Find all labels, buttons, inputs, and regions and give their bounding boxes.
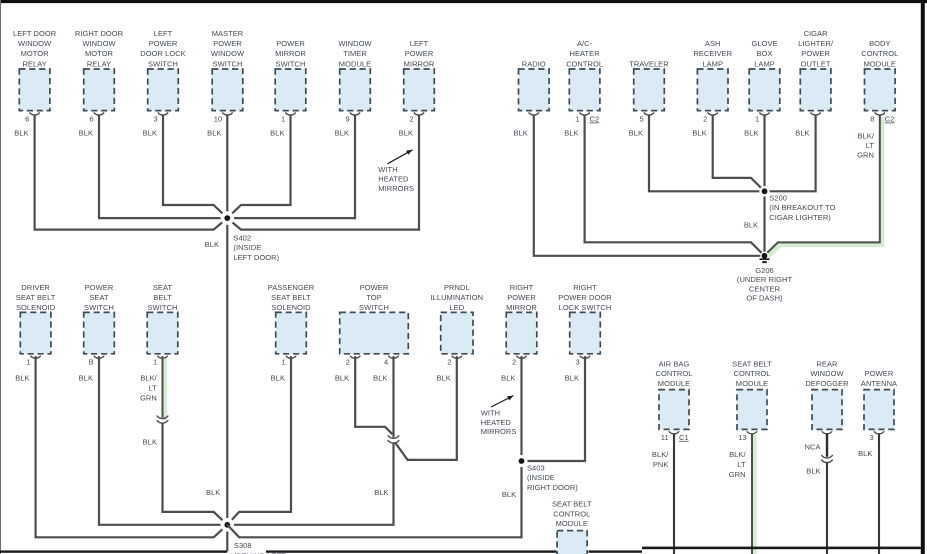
svg-text:MODULE: MODULE bbox=[658, 379, 690, 388]
svg-text:SEAT BELT: SEAT BELT bbox=[271, 293, 311, 302]
svg-text:BLK: BLK bbox=[15, 374, 29, 383]
power seat switch box bbox=[84, 312, 115, 353]
svg-text:SWITCH: SWITCH bbox=[213, 59, 243, 68]
svg-text:8: 8 bbox=[870, 115, 874, 124]
connector pin of cigar lighter/power outlet bbox=[811, 113, 821, 115]
wire window timer module to S402 bbox=[227, 115, 355, 218]
wire driver seat belt solenoid to S308 bbox=[36, 356, 228, 537]
svg-text:C2: C2 bbox=[885, 115, 895, 124]
svg-text:LAMP: LAMP bbox=[754, 59, 775, 68]
svg-text:2: 2 bbox=[409, 115, 413, 124]
svg-text:RIGHT DOOR): RIGHT DOOR) bbox=[527, 483, 578, 492]
svg-text:WINDOW: WINDOW bbox=[82, 39, 116, 48]
svg-text:LT: LT bbox=[737, 460, 746, 469]
splice S403 bbox=[516, 455, 528, 467]
svg-text:BLK: BLK bbox=[744, 220, 758, 229]
svg-text:4: 4 bbox=[384, 358, 388, 367]
svg-text:3: 3 bbox=[869, 433, 873, 442]
wire ash receiver lamp to S200 bbox=[713, 115, 765, 192]
svg-text:SWITCH: SWITCH bbox=[276, 59, 306, 68]
svg-text:POWER: POWER bbox=[276, 39, 305, 48]
svg-text:POWER: POWER bbox=[801, 49, 830, 58]
A/C-heater control box bbox=[569, 69, 600, 111]
connector pin of body control module bbox=[875, 113, 885, 115]
wire rear window defogger wire lower bbox=[826, 462, 828, 554]
svg-text:RIGHT DOOR: RIGHT DOOR bbox=[75, 29, 124, 38]
svg-text:BLK: BLK bbox=[692, 129, 706, 138]
wire power top switch combined wire to S308 bbox=[227, 443, 393, 525]
svg-text:BLK: BLK bbox=[513, 129, 527, 138]
window timer module box bbox=[340, 69, 371, 111]
svg-text:BLK/: BLK/ bbox=[140, 374, 157, 383]
svg-text:S200: S200 bbox=[769, 194, 787, 203]
svg-text:LEFT: LEFT bbox=[154, 29, 173, 38]
svg-text:1: 1 bbox=[281, 358, 285, 367]
svg-text:BLK: BLK bbox=[373, 374, 387, 383]
svg-text:WINDOW: WINDOW bbox=[211, 49, 245, 58]
wire passenger seat belt solenoid to S308 bbox=[227, 356, 291, 525]
svg-text:ILLUMINATION: ILLUMINATION bbox=[431, 293, 484, 302]
svg-text:MIRROR: MIRROR bbox=[506, 303, 537, 312]
svg-text:POWER: POWER bbox=[405, 49, 434, 58]
svg-text:POWER: POWER bbox=[213, 39, 242, 48]
svg-text:PNK: PNK bbox=[653, 460, 669, 469]
svg-text:MODULE: MODULE bbox=[736, 379, 768, 388]
svg-text:BLK: BLK bbox=[436, 374, 450, 383]
svg-text:POWER: POWER bbox=[360, 283, 389, 292]
svg-text:PASSENGER: PASSENGER bbox=[268, 283, 315, 292]
svg-text:S403: S403 bbox=[527, 464, 545, 473]
wire cigar lighter to S200 bbox=[765, 115, 816, 192]
svg-text:S308: S308 bbox=[234, 541, 252, 550]
svg-text:BLK: BLK bbox=[501, 374, 515, 383]
svg-text:TIMER: TIMER bbox=[343, 49, 367, 58]
svg-text:BLK: BLK bbox=[79, 374, 93, 383]
svg-text:MODULE: MODULE bbox=[339, 59, 371, 68]
svg-text:SEAT BELT: SEAT BELT bbox=[16, 293, 56, 302]
svg-text:CONTROL: CONTROL bbox=[861, 49, 898, 58]
wire seat belt control module wire down (BLK/LT GRN) bbox=[752, 436, 757, 554]
connector pin of right door window motor relay bbox=[94, 113, 104, 115]
svg-text:BLK: BLK bbox=[795, 129, 809, 138]
frame left border bbox=[0, 0, 1, 554]
svg-text:WINDOW: WINDOW bbox=[18, 39, 52, 48]
seat belt control module (bottom) box bbox=[557, 531, 587, 554]
svg-text:BLK: BLK bbox=[14, 129, 28, 138]
cigar lighter/power outlet box bbox=[800, 69, 831, 111]
wire power seat switch to S308 bbox=[99, 356, 227, 525]
svg-text:BLK: BLK bbox=[79, 129, 93, 138]
svg-text:CIGAR: CIGAR bbox=[804, 29, 829, 38]
splice S308 bbox=[221, 518, 235, 532]
connector pin of left power door lock switch bbox=[158, 113, 168, 115]
svg-text:1: 1 bbox=[281, 115, 285, 124]
wire PRNDL illumination LED wire bbox=[395, 356, 457, 460]
svg-text:C2: C2 bbox=[590, 115, 600, 124]
wire right door window motor relay to S402 bbox=[99, 115, 227, 218]
svg-text:C1: C1 bbox=[679, 433, 689, 442]
svg-text:BLK: BLK bbox=[335, 129, 349, 138]
svg-text:A/C-: A/C- bbox=[577, 39, 593, 48]
svg-text:BLK/: BLK/ bbox=[652, 450, 669, 459]
body control module box bbox=[865, 69, 896, 111]
svg-text:B: B bbox=[89, 358, 94, 367]
svg-text:POWER: POWER bbox=[865, 369, 894, 378]
connector pin of right power mirror bbox=[517, 356, 527, 358]
svg-text:GRN: GRN bbox=[729, 470, 746, 479]
svg-text:WINDOW: WINDOW bbox=[338, 39, 372, 48]
svg-text:PRNDL: PRNDL bbox=[444, 283, 470, 292]
svg-text:POWER DOOR: POWER DOOR bbox=[558, 293, 612, 302]
svg-text:BLK: BLK bbox=[564, 129, 578, 138]
air bag control module box bbox=[659, 390, 689, 430]
svg-text:SEAT: SEAT bbox=[153, 283, 173, 292]
wire power mirror switch to S402 bbox=[227, 115, 290, 218]
svg-text:2: 2 bbox=[447, 358, 451, 367]
svg-text:2: 2 bbox=[512, 358, 516, 367]
svg-text:1: 1 bbox=[26, 358, 30, 367]
connector pin of right power door lock switch bbox=[580, 356, 590, 358]
svg-text:2: 2 bbox=[703, 115, 707, 124]
svg-text:MASTER: MASTER bbox=[212, 29, 244, 38]
wire air bag control module wire down bbox=[673, 434, 675, 554]
rear window defogger box bbox=[812, 390, 842, 430]
svg-text:SEAT BELT: SEAT BELT bbox=[552, 500, 592, 509]
wire body control module to G206 (BLK/LT GRN) bbox=[767, 117, 882, 258]
connector pin of left power mirror bbox=[414, 113, 424, 115]
svg-text:3: 3 bbox=[153, 115, 157, 124]
svg-text:LEFT DOOR): LEFT DOOR) bbox=[233, 253, 279, 262]
wire right power door lock switch to S403 bbox=[522, 356, 586, 461]
svg-text:MIRRORS: MIRRORS bbox=[481, 427, 517, 436]
svg-text:13: 13 bbox=[738, 433, 746, 442]
svg-text:WITH: WITH bbox=[378, 165, 397, 174]
svg-text:CONTROL: CONTROL bbox=[655, 369, 692, 378]
connector pin of power seat switch bbox=[94, 356, 104, 358]
svg-text:BLK: BLK bbox=[205, 240, 219, 249]
svg-text:BLK: BLK bbox=[502, 490, 516, 499]
svg-text:RADIO: RADIO bbox=[522, 59, 546, 68]
G206 ground symbol bbox=[760, 258, 770, 260]
svg-text:SWITCH: SWITCH bbox=[84, 303, 114, 312]
svg-text:LED: LED bbox=[449, 303, 464, 312]
connector pin of seat belt switch bbox=[158, 356, 168, 358]
svg-text:1: 1 bbox=[755, 115, 759, 124]
wire seat belt switch green segment (BLK/LT GRN) bbox=[163, 359, 168, 421]
svg-text:POWER: POWER bbox=[149, 39, 178, 48]
svg-text:(UNDER RIGHT: (UNDER RIGHT bbox=[737, 275, 793, 284]
svg-text:SOLENOID: SOLENOID bbox=[16, 303, 56, 312]
arrow with heated mirrors (left power mirror) bbox=[388, 150, 413, 164]
svg-text:WITH: WITH bbox=[481, 409, 500, 418]
svg-text:BLK: BLK bbox=[143, 129, 157, 138]
splice S402 bbox=[221, 211, 235, 225]
wire seat belt switch black segment to S308 bbox=[163, 423, 228, 525]
svg-text:MIRROR: MIRROR bbox=[404, 59, 435, 68]
svg-text:6: 6 bbox=[25, 115, 29, 124]
driver seat belt solenoid box bbox=[20, 312, 51, 353]
svg-text:S402: S402 bbox=[233, 234, 251, 243]
wire radio to G206 bbox=[534, 115, 765, 256]
svg-text:RIGHT: RIGHT bbox=[510, 283, 534, 292]
seat belt control module box bbox=[737, 390, 767, 430]
frame right border bbox=[921, 0, 925, 554]
wire left power door lock switch to S402 bbox=[163, 115, 227, 218]
svg-text:HEATED: HEATED bbox=[378, 174, 409, 183]
svg-text:SWITCH: SWITCH bbox=[359, 303, 389, 312]
svg-text:CIGAR LIGHTER): CIGAR LIGHTER) bbox=[769, 213, 831, 222]
svg-text:BOX: BOX bbox=[757, 49, 773, 58]
svg-text:1: 1 bbox=[153, 358, 157, 367]
svg-text:NCA: NCA bbox=[805, 442, 821, 451]
wire power top switch pin2 wire bbox=[355, 356, 392, 434]
master power window switch box bbox=[212, 69, 243, 111]
svg-text:ASH: ASH bbox=[705, 39, 721, 48]
inline splice on power top switch wire bbox=[388, 436, 399, 439]
wire S402 to S308 and below bbox=[226, 218, 228, 551]
wire traveler to S200 bbox=[649, 115, 765, 192]
svg-text:BLK: BLK bbox=[806, 467, 820, 476]
ash receiver lamp box bbox=[697, 69, 728, 111]
svg-text:BLK: BLK bbox=[271, 374, 285, 383]
svg-text:BLK: BLK bbox=[858, 449, 872, 458]
svg-text:MIRROR: MIRROR bbox=[275, 49, 306, 58]
svg-text:(INSIDE: (INSIDE bbox=[233, 243, 261, 252]
power top switch box bbox=[340, 312, 409, 353]
connector pin of window timer module bbox=[350, 113, 360, 115]
svg-text:WINDOW: WINDOW bbox=[810, 369, 844, 378]
svg-text:6: 6 bbox=[89, 115, 93, 124]
connector pins of power top switch bbox=[350, 356, 360, 358]
svg-text:(INSIDE: (INSIDE bbox=[527, 473, 555, 482]
svg-text:BLK: BLK bbox=[270, 129, 284, 138]
svg-text:MIRRORS: MIRRORS bbox=[378, 184, 414, 193]
wire power antenna wire down bbox=[878, 434, 880, 554]
wire A/C-heater control to G206 bbox=[585, 115, 765, 256]
svg-text:TOP: TOP bbox=[366, 293, 381, 302]
svg-text:RECEIVER: RECEIVER bbox=[693, 49, 732, 58]
connector pin of PRNDL illumination LED bbox=[452, 356, 462, 358]
svg-text:9: 9 bbox=[345, 115, 349, 124]
arrow with heated mirrors (right power mirror) bbox=[491, 396, 514, 407]
svg-text:AIR BAG: AIR BAG bbox=[659, 359, 690, 368]
svg-text:LAMP: LAMP bbox=[702, 59, 723, 68]
splice G206 bbox=[760, 252, 768, 260]
svg-text:BLK: BLK bbox=[565, 374, 579, 383]
svg-text:BLK: BLK bbox=[744, 129, 758, 138]
power mirror switch box bbox=[275, 69, 306, 111]
svg-text:REAR: REAR bbox=[816, 359, 838, 368]
svg-text:MODULE: MODULE bbox=[864, 59, 896, 68]
svg-text:10: 10 bbox=[214, 115, 222, 124]
svg-text:LT: LT bbox=[866, 141, 875, 150]
connector pin of seat belt control module bbox=[747, 432, 757, 434]
svg-text:MODULE: MODULE bbox=[556, 519, 588, 528]
right power door lock switch box bbox=[570, 312, 601, 353]
frame bottom border segments bbox=[0, 550, 227, 552]
inline splice on seat belt switch wire bbox=[157, 416, 168, 419]
svg-text:BLK: BLK bbox=[335, 374, 349, 383]
svg-text:CONTROL: CONTROL bbox=[553, 509, 590, 518]
connector pin of passenger seat belt solenoid bbox=[286, 356, 296, 358]
svg-text:GRN: GRN bbox=[857, 151, 874, 160]
svg-text:1: 1 bbox=[575, 115, 579, 124]
svg-text:SEAT: SEAT bbox=[89, 293, 109, 302]
wire S200 to G206 bbox=[763, 191, 765, 256]
connector pin of ash receiver lamp bbox=[708, 113, 718, 115]
left power door lock switch box bbox=[148, 69, 179, 111]
connector pin of radio bbox=[529, 113, 539, 115]
connector pin of glove box lamp bbox=[760, 113, 770, 115]
wire left power mirror to S402 bbox=[227, 115, 419, 230]
svg-text:5: 5 bbox=[639, 115, 643, 124]
svg-text:OF DASH): OF DASH) bbox=[746, 294, 783, 303]
svg-text:LIGHTER/: LIGHTER/ bbox=[798, 39, 834, 48]
svg-text:LEFT DOOR: LEFT DOOR bbox=[13, 29, 57, 38]
connector pin of traveler bbox=[644, 113, 654, 115]
svg-text:OUTLET: OUTLET bbox=[801, 59, 831, 68]
glove box lamp box bbox=[749, 69, 780, 111]
svg-text:CENTER: CENTER bbox=[749, 284, 781, 293]
splice S200 bbox=[759, 186, 769, 196]
connector pin of left door window motor relay bbox=[30, 113, 40, 115]
svg-text:LEFT: LEFT bbox=[410, 39, 429, 48]
right door window motor relay box bbox=[84, 69, 115, 111]
connector pin of power mirror switch bbox=[286, 113, 296, 115]
svg-text:11: 11 bbox=[661, 433, 669, 442]
svg-text:TRAVELER: TRAVELER bbox=[629, 59, 669, 68]
svg-text:RELAY: RELAY bbox=[22, 59, 46, 68]
svg-text:GLOVE: GLOVE bbox=[751, 39, 777, 48]
svg-text:LT: LT bbox=[149, 384, 158, 393]
svg-text:BLK: BLK bbox=[374, 488, 388, 497]
svg-text:LOCK SWITCH: LOCK SWITCH bbox=[559, 303, 612, 312]
svg-text:GRN: GRN bbox=[140, 394, 157, 403]
seat belt switch box bbox=[147, 312, 178, 353]
svg-text:BLK: BLK bbox=[207, 129, 221, 138]
svg-text:DOOR LOCK: DOOR LOCK bbox=[140, 49, 185, 58]
svg-text:DEFOGGER: DEFOGGER bbox=[805, 379, 849, 388]
svg-text:ANTENNA: ANTENNA bbox=[861, 379, 897, 388]
svg-text:BLK: BLK bbox=[206, 488, 220, 497]
svg-text:SEAT BELT: SEAT BELT bbox=[732, 359, 772, 368]
frame top border bbox=[0, 0, 927, 3]
svg-text:2: 2 bbox=[346, 358, 350, 367]
svg-text:BLK/: BLK/ bbox=[729, 450, 746, 459]
wire rear window defogger wire upper bbox=[826, 434, 828, 457]
connector pin of power antenna bbox=[874, 432, 884, 434]
wire glove box lamp to S200 bbox=[763, 115, 765, 192]
svg-text:CONTROL: CONTROL bbox=[566, 59, 603, 68]
passenger seat belt solenoid box bbox=[276, 312, 307, 353]
svg-text:BLK: BLK bbox=[143, 437, 157, 446]
svg-text:BLK: BLK bbox=[399, 129, 413, 138]
power antenna box bbox=[864, 390, 894, 430]
PRNDL illumination LED box bbox=[441, 312, 473, 353]
right power mirror box bbox=[506, 312, 537, 353]
svg-text:MOTOR: MOTOR bbox=[85, 49, 114, 58]
svg-text:3: 3 bbox=[575, 358, 579, 367]
svg-text:POWER: POWER bbox=[507, 293, 536, 302]
connector pin of master power window switch bbox=[223, 113, 233, 115]
wire power top switch pin4 wire upper bbox=[392, 356, 394, 437]
radio box bbox=[519, 69, 550, 111]
wire left door window motor relay to S402 bbox=[35, 115, 228, 230]
svg-text:POWER: POWER bbox=[85, 283, 114, 292]
svg-text:RELAY: RELAY bbox=[87, 59, 111, 68]
svg-text:RIGHT: RIGHT bbox=[573, 283, 597, 292]
svg-text:SOLENOID: SOLENOID bbox=[271, 303, 311, 312]
svg-text:HEATED: HEATED bbox=[481, 418, 512, 427]
svg-text:SWITCH: SWITCH bbox=[148, 303, 178, 312]
connector pin of driver seat belt solenoid bbox=[31, 356, 41, 358]
svg-text:BLK: BLK bbox=[629, 129, 643, 138]
svg-text:CONTROL: CONTROL bbox=[733, 369, 770, 378]
svg-text:HEATER: HEATER bbox=[570, 49, 601, 58]
svg-text:MOTOR: MOTOR bbox=[21, 49, 50, 58]
svg-text:BELT: BELT bbox=[153, 293, 172, 302]
svg-text:BODY: BODY bbox=[869, 39, 890, 48]
wire master power window switch to S402 bbox=[226, 115, 228, 218]
svg-text:DRIVER: DRIVER bbox=[21, 283, 50, 292]
connector pin of A/C-heater control bbox=[580, 113, 590, 115]
wire right power mirror to S403 and S308 bbox=[227, 356, 521, 537]
svg-text:G206: G206 bbox=[755, 266, 774, 275]
traveler box bbox=[634, 69, 665, 111]
connector pin of rear window defogger bbox=[822, 432, 832, 434]
connector pin of air bag control module bbox=[669, 432, 679, 434]
inline connector on rear window defogger wire bbox=[822, 455, 833, 458]
svg-text:(IN BREAKOUT TO: (IN BREAKOUT TO bbox=[769, 203, 835, 212]
left power mirror box bbox=[404, 69, 435, 111]
svg-text:SWITCH: SWITCH bbox=[148, 59, 178, 68]
svg-text:BLK/: BLK/ bbox=[858, 131, 875, 140]
left door window motor relay box bbox=[19, 69, 50, 111]
